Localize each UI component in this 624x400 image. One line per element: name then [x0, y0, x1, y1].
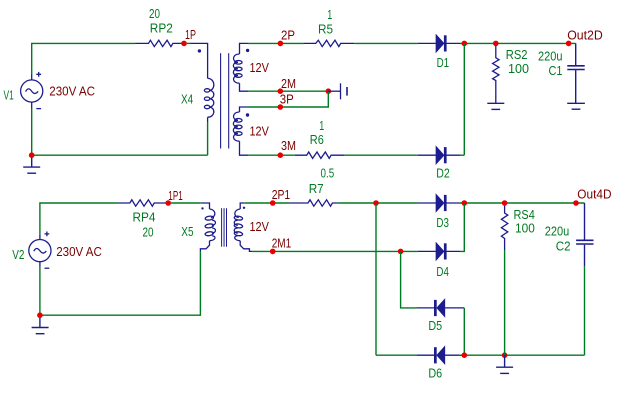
svg-text:2M: 2M — [281, 76, 296, 91]
svg-text:RP4: RP4 — [133, 210, 156, 225]
X4 primary coil — [208, 78, 214, 90]
transformer X4 — [191, 43, 214, 122]
node 2M1 — [270, 249, 276, 255]
node 3P — [278, 104, 284, 110]
wire 2M row — [248, 90, 328, 92]
X5 secondary coil — [234, 203, 252, 251]
node 3M — [278, 152, 284, 158]
svg-text:RS2: RS2 — [506, 47, 528, 62]
wire D1 to out rail — [460, 42, 576, 44]
X4 polarity dot primary — [198, 49, 201, 52]
resistor R7 — [290, 200, 338, 206]
wire V2 bottom — [39, 268, 41, 316]
svg-text:C2: C2 — [556, 239, 571, 254]
ground (V2) — [32, 315, 49, 334]
svg-text:RP2: RP2 — [150, 21, 173, 36]
wire R5 to D1 — [354, 42, 418, 44]
svg-text:D3: D3 — [436, 215, 449, 230]
wire C2 down to rail — [584, 266, 586, 355]
wire D1 junction down to D2 — [463, 43, 465, 155]
wire V1 top to rail — [32, 43, 135, 74]
ground (rail) — [496, 355, 513, 373]
X5 polarity mark secondary — [243, 207, 245, 209]
diode D5 — [417, 300, 464, 316]
current probe I — [328, 83, 340, 99]
node 1P1 — [165, 200, 171, 206]
node Out4D — [573, 200, 579, 206]
node 2P1 — [270, 200, 276, 206]
wire X4 primary bottom to rail — [207, 122, 209, 155]
node 1P — [181, 41, 187, 47]
node D5/D6 junction — [462, 352, 468, 358]
wire 3M row — [248, 154, 295, 156]
wire bottom rail circuit1 — [32, 154, 208, 156]
svg-text:12V: 12V — [250, 60, 270, 75]
diode D2 — [418, 147, 460, 163]
source V2 — [29, 232, 51, 269]
wire junction down to D6 — [375, 203, 377, 355]
node V1 ground junction — [29, 152, 35, 158]
svg-text:R6: R6 — [310, 132, 324, 147]
node ground rail junction — [502, 352, 508, 358]
node RS4 top — [502, 200, 508, 206]
node 2M — [278, 88, 284, 94]
X4 secondary winding 1 — [233, 43, 248, 91]
diode D3 — [418, 195, 460, 211]
resistor RS4 — [501, 206, 507, 250]
wire 2P1 row — [244, 202, 290, 204]
X5 polarity mark primary — [201, 207, 203, 209]
resistor R5 — [304, 40, 355, 46]
svg-text:V2: V2 — [12, 247, 24, 262]
source V1 — [21, 72, 43, 109]
node D1 junction — [462, 41, 468, 47]
svg-text:Out4D: Out4D — [577, 187, 611, 202]
resistor R6 — [295, 152, 345, 158]
svg-text:V1: V1 — [4, 88, 14, 103]
svg-text:D1: D1 — [437, 55, 450, 70]
node 2M/3P junction — [326, 88, 332, 94]
svg-text:C1: C1 — [549, 63, 563, 78]
svg-text:X4: X4 — [181, 92, 193, 107]
node Out2D — [566, 41, 572, 47]
transformer X5 — [200, 203, 215, 252]
wire V2 top to rail — [40, 203, 118, 234]
resistor RP2 — [135, 40, 184, 46]
svg-text:D6: D6 — [428, 366, 442, 381]
X4 primary lead bottom — [207, 117, 209, 122]
svg-text:220u: 220u — [545, 224, 570, 239]
wire D5 to vertical — [463, 308, 465, 355]
wire RS4 down to rail — [504, 250, 506, 355]
svg-text:3M: 3M — [281, 138, 296, 153]
svg-text:Out2D: Out2D — [567, 27, 603, 42]
wire junction down to 3P row — [248, 91, 328, 107]
svg-text:220u: 220u — [538, 49, 563, 64]
svg-text:0.5: 0.5 — [321, 166, 335, 181]
svg-text:D4: D4 — [436, 264, 449, 279]
svg-text:1P: 1P — [185, 27, 196, 42]
wire 2M1 row — [252, 250, 418, 252]
resistor RP4 — [117, 200, 168, 206]
svg-text:2P: 2P — [281, 27, 295, 42]
svg-text:12V: 12V — [250, 219, 270, 234]
wire bottom rail circuit2 — [40, 252, 201, 315]
wire D6 output rail — [459, 354, 585, 356]
svg-text:12V: 12V — [250, 124, 270, 139]
diode D6 — [417, 347, 462, 363]
node 2M1/D5 junction — [398, 249, 404, 255]
X5 primary coil — [210, 209, 215, 218]
ground (V1) — [23, 155, 40, 173]
X4 polarity dot secondary 2 — [246, 113, 249, 116]
svg-text:100: 100 — [515, 221, 535, 236]
X4 secondary winding 2 — [233, 107, 248, 155]
capacitor C2 — [576, 203, 593, 266]
resistor RS2 — [493, 46, 499, 103]
wire to D6 — [376, 354, 417, 356]
X5 primary lead — [201, 203, 210, 209]
svg-text:R7: R7 — [309, 181, 324, 196]
svg-text:20: 20 — [149, 6, 160, 21]
svg-text:100: 100 — [508, 61, 529, 76]
svg-text:2P1: 2P1 — [272, 187, 291, 202]
svg-text:230V AC: 230V AC — [49, 84, 95, 99]
wire 2P row — [248, 42, 304, 44]
X4 core — [221, 53, 229, 148]
wire junction down to D5 — [401, 251, 417, 308]
svg-text:1P1: 1P1 — [168, 188, 183, 203]
node V2 ground junction — [37, 312, 43, 318]
wire R7 to D3 — [338, 202, 418, 204]
ground (C1) — [567, 103, 585, 109]
svg-text:3P: 3P — [280, 92, 294, 107]
capacitor C1 — [567, 43, 584, 103]
svg-text:D5: D5 — [428, 318, 442, 333]
wire 1P1 to X5 — [171, 202, 201, 204]
label I (probe) — [346, 87, 348, 96]
X5 primary bottom lead — [200, 241, 209, 252]
node D3 junction — [462, 200, 468, 206]
diode D4 — [418, 243, 460, 259]
wire R6 to D2 — [345, 154, 418, 156]
X4 primary lead — [191, 43, 208, 78]
node R7/D3/D6 junction — [373, 200, 379, 206]
ground (RS2) — [487, 103, 504, 109]
node RS2 top — [493, 41, 499, 47]
diode D1 — [418, 35, 460, 51]
svg-text:230V AC: 230V AC — [56, 244, 102, 259]
node 2P — [278, 41, 284, 47]
svg-text:2M1: 2M1 — [272, 235, 292, 250]
svg-text:X5: X5 — [181, 224, 193, 239]
svg-text:1: 1 — [327, 7, 332, 22]
wire V1 bottom — [31, 108, 33, 155]
wire D2 to vertical — [460, 154, 464, 156]
svg-text:20: 20 — [143, 224, 154, 239]
wire 1P to transformer — [187, 42, 191, 44]
wire D3 to rail — [460, 202, 585, 204]
X5 core — [222, 208, 227, 247]
X4 polarity dot secondary 1 — [246, 49, 249, 52]
wire D3 junction down to D4 — [460, 203, 464, 251]
svg-text:R5: R5 — [318, 21, 333, 36]
svg-text:D2: D2 — [436, 166, 450, 181]
svg-text:1: 1 — [319, 118, 324, 133]
